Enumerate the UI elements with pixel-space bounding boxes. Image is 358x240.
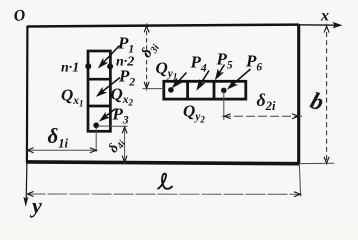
load P6 arrow xyxy=(228,69,250,89)
dimension d4i extension line xyxy=(97,125,128,127)
svg-text:x: x xyxy=(320,8,329,25)
load P4 arrow xyxy=(197,71,209,90)
dimension d3i tick top xyxy=(144,26,149,32)
dimension d2i tick right xyxy=(292,114,298,119)
dimension d1i line xyxy=(26,149,98,151)
right cell row (3 squares) xyxy=(164,81,246,99)
load P1 arrow xyxy=(99,46,120,68)
node n2 dot xyxy=(107,63,113,69)
load P6 dot xyxy=(221,88,227,94)
load P5 arrow xyxy=(216,65,225,79)
dimension l tick left xyxy=(27,192,33,197)
dimension b extension line xyxy=(300,162,334,164)
load P3 arrow xyxy=(100,109,115,121)
dimension l label (script ell) xyxy=(158,174,173,189)
dimension d2i tick left xyxy=(224,114,230,119)
dimension l line xyxy=(26,193,303,195)
left cell column (3 squares) xyxy=(88,51,110,131)
dimension d4i line xyxy=(124,125,126,163)
dimension d3i line (dashed) xyxy=(146,24,148,91)
dimension d1i tick right xyxy=(90,148,96,153)
dimension l tick right xyxy=(294,192,300,197)
dimension d2i line xyxy=(222,115,302,117)
load Qy1 arrow xyxy=(173,73,187,88)
dimension d1i extension line xyxy=(95,127,97,152)
load P2 arrow xyxy=(97,78,120,96)
dimension d4i tick top xyxy=(122,127,127,133)
dimension d2i extension line xyxy=(223,91,225,120)
node n1 dot xyxy=(85,63,91,69)
dimension b tick bottom xyxy=(324,157,329,163)
dimension d1i tick left xyxy=(27,148,33,153)
load P3 dot xyxy=(93,122,99,128)
dimension d3i tick bottom xyxy=(144,82,149,88)
dimension d3i extension line xyxy=(143,88,165,90)
y-axis xyxy=(23,163,28,207)
x-axis xyxy=(299,22,343,29)
svg-text:n·1: n·1 xyxy=(61,61,79,76)
dimension b tick top xyxy=(324,26,329,32)
dimension l extension line xyxy=(299,165,300,197)
dimension d4i tick bottom xyxy=(122,156,127,162)
plate outline xyxy=(27,25,300,164)
load Qy1 dot xyxy=(168,87,174,93)
dimension b line (dashed) xyxy=(326,24,328,165)
